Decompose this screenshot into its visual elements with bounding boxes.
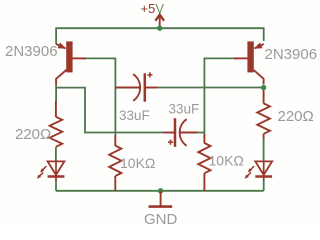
resistor R1 220 ohm (left) xyxy=(50,101,63,147)
transistor Q1 (left 2N3906, PNP) xyxy=(56,41,86,84)
LED D1 (left) xyxy=(37,161,65,182)
ground symbol GND xyxy=(144,191,178,228)
svg-text:2N3906: 2N3906 xyxy=(5,43,58,60)
junction dot at GND on bottom rail xyxy=(158,188,163,193)
svg-text:33uF: 33uF xyxy=(169,102,200,117)
wire: Q1 collector node across and down to C2 left plate xyxy=(56,88,164,133)
LED D2 (right) xyxy=(245,161,273,182)
wire: C2 right plate stub to Q2 base column xyxy=(197,132,205,134)
wire: Q2 base column down to R4 (C2 right plate joins) xyxy=(203,58,205,135)
svg-text:+5V: +5V xyxy=(141,1,165,16)
wire: Q2 base to base node column xyxy=(204,57,235,59)
capacitor C2 33uF (lower, polarized) xyxy=(164,118,198,147)
wire: left rail corner down to Q1 emitter xyxy=(55,27,57,44)
svg-text:2N3906: 2N3906 xyxy=(265,46,318,63)
wire: right 220 ohm to LED2 anode xyxy=(263,138,265,162)
svg-text:10KΩ: 10KΩ xyxy=(120,155,155,171)
svg-text:33uF: 33uF xyxy=(119,108,150,123)
resistor R4 10K ohm (right) xyxy=(198,134,210,191)
junction dot at Q2 collector node xyxy=(261,85,266,90)
wire: C1 right plate to Q2 collector node xyxy=(157,87,264,89)
resistor R3 10K ohm (left) xyxy=(109,136,121,191)
svg-text:GND: GND xyxy=(144,211,178,226)
wire: left 220 ohm to LED1 anode xyxy=(55,147,57,161)
svg-text:220Ω: 220Ω xyxy=(278,108,314,125)
transistor Q2 (right 2N3906, PNP) xyxy=(234,41,264,84)
capacitor C1 33uF (upper, polarized) xyxy=(115,72,157,101)
wire: Q1 base to base node column xyxy=(84,57,115,59)
wire: Q1 base column down to R3 (crosses C2 wire) xyxy=(114,58,116,137)
wire: right rail corner down to Q2 emitter xyxy=(263,27,265,41)
wire: LED1 cathode down to ground rail xyxy=(55,181,57,191)
junction dot at +5V on top rail xyxy=(157,26,162,31)
resistor R2 220 ohm (right) xyxy=(257,90,270,139)
wire: +5V top power rail xyxy=(56,27,264,29)
wire: LED2 cathode down to ground rail xyxy=(263,181,265,191)
svg-text:10KΩ: 10KΩ xyxy=(209,153,244,169)
+5V supply symbol xyxy=(141,1,165,28)
wire: bottom ground rail xyxy=(56,190,264,192)
wire: Q1 collector node to left 220 ohm resistor xyxy=(55,84,57,102)
svg-text:220Ω: 220Ω xyxy=(15,126,51,143)
